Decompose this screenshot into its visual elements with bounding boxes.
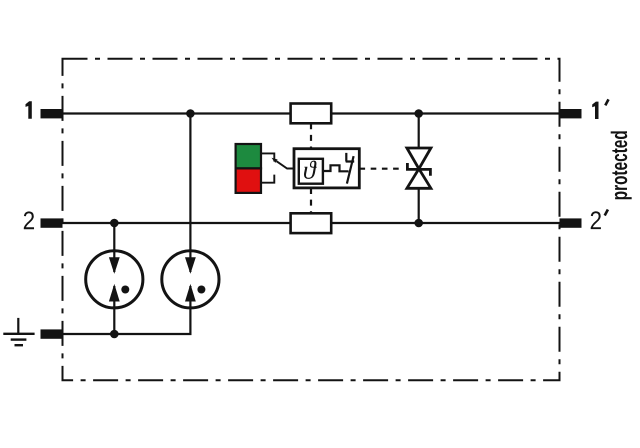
- indicator contact green: [261, 153, 274, 161]
- wire TVS vertical: [418, 114, 420, 224]
- theta symbol: [304, 161, 317, 179]
- indicator pointer: [272, 158, 295, 169]
- node on line 1 at x=419: [414, 109, 423, 118]
- prime of 1': [605, 99, 608, 105]
- wire right gas tube down and earth bus: [63, 305, 191, 334]
- node on line 2 at x=114: [110, 219, 119, 228]
- terminal ground: [41, 329, 63, 338]
- resistor R2 (series decoupling, line 2): [291, 213, 332, 233]
- terminal 1: [41, 109, 63, 118]
- dashed link thermal device to TVS: [360, 168, 405, 170]
- wire left gas tube to earth bus: [113, 305, 115, 334]
- switch fixed contact: [346, 153, 355, 162]
- switch blade: [347, 156, 354, 184]
- thermal disconnect device U1: [294, 149, 359, 188]
- gas discharge tube G2 (right): [162, 251, 219, 308]
- label 1': [592, 102, 598, 119]
- node on line 2 at x=419: [414, 219, 423, 228]
- node on earth bus: [110, 330, 119, 339]
- thermal sensor box: [299, 159, 323, 184]
- wire line 2: [63, 222, 560, 224]
- resistor R1 (series decoupling, line 1): [291, 104, 332, 124]
- wire drop from line 1 to right gas tube: [189, 114, 191, 252]
- dashed link R1 to thermal device: [310, 123, 312, 148]
- enclosure dash-dot border: [63, 59, 560, 381]
- terminal 1': [560, 109, 582, 118]
- indicator contact red: [261, 175, 274, 183]
- status indicator green: [236, 144, 261, 168]
- terminal 2': [560, 218, 582, 227]
- prime of 2': [605, 210, 608, 216]
- terminal 2: [41, 218, 63, 227]
- ground symbol: [3, 318, 34, 345]
- label protected: [611, 131, 632, 199]
- label 2': [591, 211, 601, 229]
- label 2: [24, 211, 34, 229]
- status indicator red: [236, 168, 261, 193]
- step linkage: [323, 165, 349, 171]
- dashed link thermal device to R2: [310, 188, 312, 213]
- TVS suppressor diode (bidirectional): [407, 148, 431, 188]
- wire drop from line 2 to left gas tube: [113, 223, 115, 251]
- wire line 1: [63, 112, 560, 114]
- label 1: [26, 101, 32, 118]
- node on line 1 at x=190: [186, 109, 195, 118]
- gas discharge tube G1 (left): [86, 251, 143, 308]
